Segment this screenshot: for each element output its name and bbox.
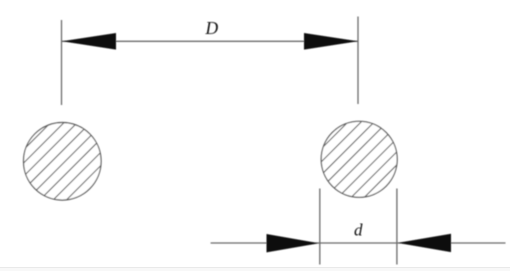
arrowhead pointing left at right extension of d <box>398 234 452 252</box>
svg-text:D: D <box>205 18 219 38</box>
arrowhead pointing right at left extension of d <box>267 234 320 252</box>
svg-text:d: d <box>354 221 363 240</box>
circle section left <box>24 123 102 201</box>
wire: extension line left of dimension d <box>319 189 321 265</box>
arrowhead right of D <box>304 33 358 50</box>
wire: extension line right of dimension D <box>357 17 359 105</box>
wire: dimension line D <box>62 40 358 42</box>
hatching left circle <box>0 110 156 210</box>
arrowhead left of D <box>62 33 116 50</box>
wire: extension line right of dimension d <box>396 189 398 265</box>
bottom hairline of content area <box>0 267 510 268</box>
circle section right <box>321 121 397 197</box>
bottom off-white strip <box>0 268 510 271</box>
hatching right circle <box>260 110 452 210</box>
wire: extension line left of dimension D <box>61 20 63 105</box>
wire: dimension line d <box>211 242 506 244</box>
